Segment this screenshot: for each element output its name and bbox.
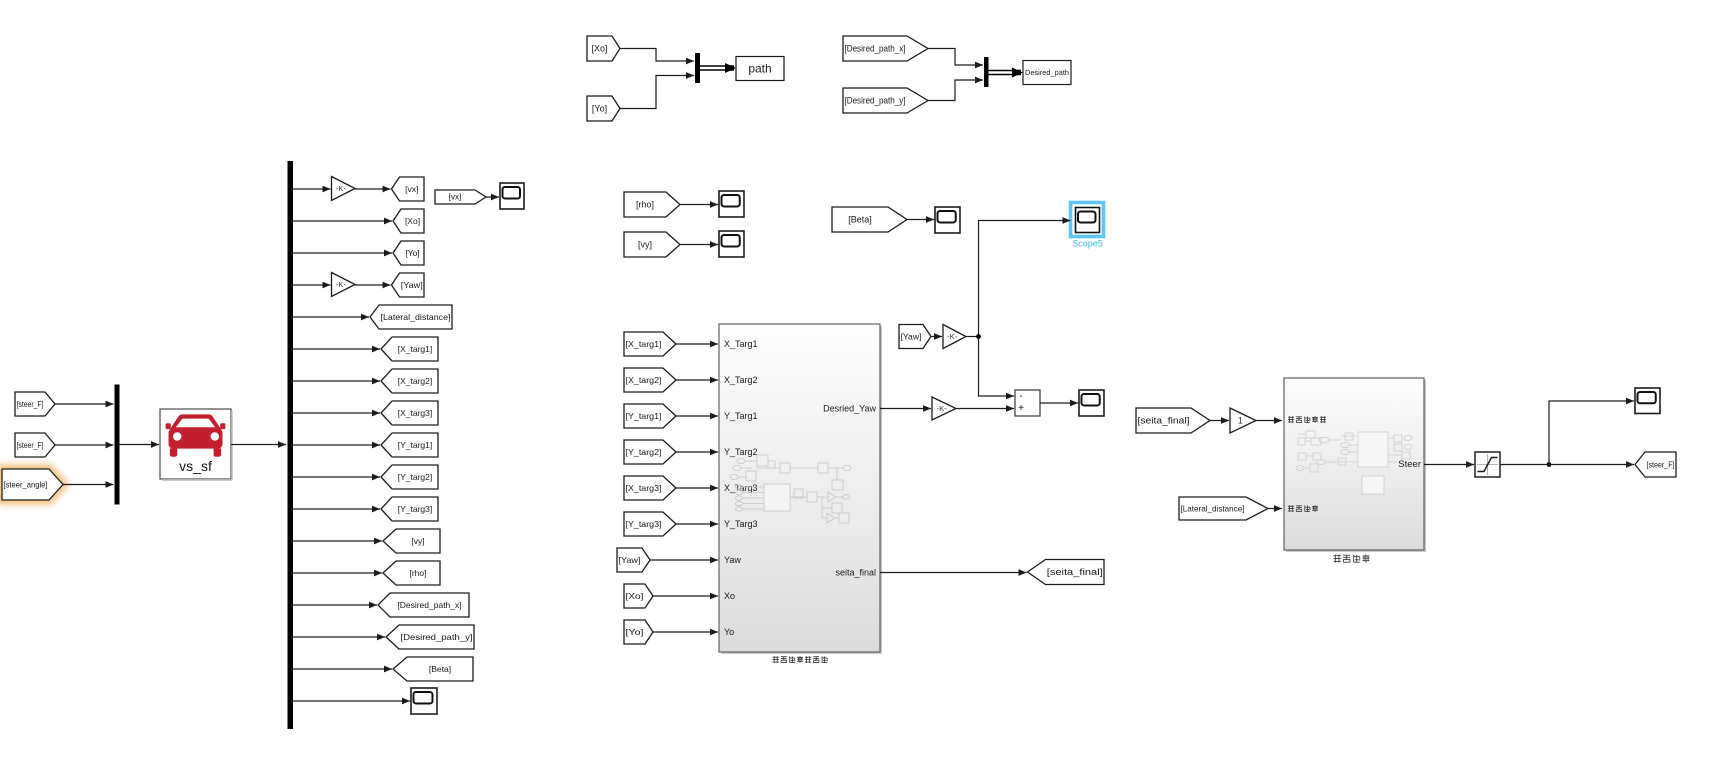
svg-text:[rho]: [rho] [636, 200, 654, 210]
from tag [Yo] into subsystem A [624, 620, 653, 644]
from tag [rho] [624, 192, 680, 217]
wire [vx] to scope S2 [486, 194, 499, 201]
junction node dot [976, 334, 981, 339]
svg-text:Yo: Yo [724, 627, 734, 637]
gain G1 -K- [332, 177, 356, 201]
from tag [Desired_path_x] [843, 36, 928, 61]
svg-text:[Xo]: [Xo] [405, 216, 420, 226]
scope S3 [719, 191, 744, 217]
svg-text:[Xo]: [Xo] [591, 44, 607, 54]
svg-text:[Y_targ1]: [Y_targ1] [626, 411, 662, 421]
from tag [vy] [624, 232, 680, 257]
svg-text:[Yaw]: [Yaw] [401, 280, 423, 290]
wire [Xo] to subsystem A port 8 [653, 593, 718, 600]
mux Mux1 [695, 53, 700, 83]
goto tag [Yo] [393, 241, 424, 265]
svg-text:Desried_Yaw: Desried_Yaw [823, 404, 876, 414]
svg-text:[X_targ1]: [X_targ1] [626, 339, 662, 349]
svg-text:[Yo]: [Yo] [592, 104, 607, 114]
svg-text:[Yo]: [Yo] [405, 248, 419, 258]
subsystem B input port label 偏航角误差 [1288, 416, 1326, 422]
goto tag [Xo] [393, 209, 424, 233]
svg-text:[rho]: [rho] [409, 568, 426, 578]
wire [rho] to scope S3 [680, 201, 718, 208]
gain G5 value 1 [1230, 408, 1256, 433]
mux Mux2 [984, 57, 989, 87]
mux Mux3 [115, 385, 120, 505]
svg-text:[vy]: [vy] [638, 240, 652, 250]
from tag [Xo] into subsystem A [624, 584, 653, 608]
svg-text:-K-: -K- [336, 184, 347, 193]
wire demux out15 to goto [Desired_path_y] [293, 634, 385, 641]
wire [Beta] to scope S5 [907, 216, 934, 223]
svg-text:[vx]: [vx] [449, 193, 461, 202]
wire saturation to goto [steer_F] [1500, 461, 1634, 468]
from tag [seita_final] [1136, 408, 1210, 433]
from tag [Y_targ1] into subsystem A [624, 404, 676, 428]
scope S4 [719, 231, 744, 257]
wire demux out13 to goto [rho] [293, 570, 382, 577]
wire demux out10 to goto [Y_targ2] [293, 474, 380, 481]
svg-text:[seita_final]: [seita_final] [1138, 416, 1190, 426]
subsystem B label 控制算法 [1333, 555, 1369, 563]
wire [Y_targ1] to subsystem A port 3 [676, 413, 718, 420]
from tag [Xo] [587, 36, 620, 61]
wire [Desired_path_y] to Mux2 [928, 77, 983, 101]
svg-text:[seita_final]: [seita_final] [1047, 567, 1103, 577]
svg-text:[X_targ3]: [X_targ3] [398, 408, 433, 418]
wire Desried_Yaw to gain G4 [880, 405, 931, 412]
svg-text:[Desired_path_x]: [Desired_path_x] [397, 600, 461, 610]
wire [steer_F] upper to Mux3 [55, 401, 114, 408]
wire [Lateral_distance] to subsystem B [1268, 505, 1282, 512]
gain G3 -K- [943, 325, 966, 349]
goto tag [Desired_path_y] [386, 625, 474, 649]
svg-text:[steer_F]: [steer_F] [17, 440, 44, 450]
goto tag [steer_F] [1635, 452, 1676, 477]
svg-text:[Desired_path_x]: [Desired_path_x] [845, 44, 906, 54]
goto tag [Y_targ1] [381, 433, 438, 457]
from tag [X_targ3] into subsystem A [624, 476, 676, 500]
wire demux out4 to gain G2 [293, 282, 331, 289]
wire [Xo] to Mux1 [620, 49, 694, 65]
wire Steer to saturation [1424, 461, 1474, 468]
svg-text:X_Targ1: X_Targ1 [724, 339, 758, 349]
svg-text:[Yaw]: [Yaw] [619, 555, 641, 565]
svg-text:[steer_angle]: [steer_angle] [4, 480, 48, 490]
goto tag [Y_targ2] [381, 465, 438, 489]
subsystem vs_sf (vehicle model) [160, 409, 232, 480]
goto tag [Y_targ3] [381, 497, 438, 521]
svg-text:[steer_F]: [steer_F] [1647, 460, 1675, 470]
wire demux out8 to goto [X_targ3] [293, 410, 380, 417]
wire demux out6 to goto [X_targ1] [293, 346, 380, 353]
display path [736, 57, 784, 81]
svg-text:[Lateral_distance]: [Lateral_distance] [381, 312, 451, 322]
vector wire Mux1 to path display [700, 63, 736, 73]
from tag [Yaw] mid [899, 325, 931, 349]
wire demux out9 to goto [Y_targ1] [293, 442, 380, 449]
svg-text:[X_targ1]: [X_targ1] [398, 344, 433, 354]
svg-text:Yaw: Yaw [724, 555, 741, 565]
svg-text:[Yaw]: [Yaw] [901, 332, 922, 342]
subsystem 期望航向角计算 (desired heading angle calculation) [719, 324, 882, 654]
wire demux out5 to goto [Lateral_distance] [293, 314, 369, 321]
svg-text:[vy]: [vy] [411, 536, 424, 546]
wire demux out3 to goto [Yo] [293, 250, 392, 257]
goto tag [vx] [392, 177, 425, 201]
svg-text:[Desired_path_y]: [Desired_path_y] [401, 632, 473, 642]
wire [Yo] to subsystem A port 9 [653, 629, 718, 636]
svg-text:[X_targ3]: [X_targ3] [626, 483, 662, 493]
svg-text:[Y_targ2]: [Y_targ2] [626, 447, 662, 457]
from tag [Y_targ2] into subsystem A [624, 440, 676, 464]
goto tag [vy] [383, 529, 440, 553]
svg-text:[Y_targ2]: [Y_targ2] [398, 472, 433, 482]
svg-text:Scope5: Scope5 [1072, 239, 1103, 249]
goto tag [Beta] [393, 657, 473, 681]
wire [Desired_path_x] to Mux2 [928, 49, 983, 69]
wire [Yaw] to gain G3 [931, 333, 942, 340]
goto tag [Desired_path_x] [378, 593, 469, 617]
vector wire Mux2 to Desired_path display [989, 68, 1024, 78]
goto tag [rho] [383, 561, 440, 585]
svg-text:[Y_targ1]: [Y_targ1] [398, 440, 433, 450]
from tag [steer_F] upper [15, 392, 55, 416]
svg-text:[X_targ2]: [X_targ2] [626, 375, 662, 385]
svg-text:[Beta]: [Beta] [848, 215, 872, 225]
svg-text:+: + [1018, 403, 1024, 414]
wire [Y_targ2] to subsystem A port 4 [676, 449, 718, 456]
goto tag [X_targ3] [381, 401, 438, 425]
from tag [Beta] [832, 207, 907, 232]
wire demux out11 to goto [Y_targ3] [293, 506, 380, 513]
svg-text:path: path [748, 62, 771, 76]
scope Scope5 (selected, blue highlight) [1071, 203, 1104, 249]
junction node dot on steer wire [1547, 462, 1552, 467]
wire gain G4 to sum plus input [956, 405, 1014, 412]
scope S6 [1079, 390, 1104, 416]
from tag [X_targ1] into subsystem A [624, 332, 676, 356]
from tag [Y_targ3] into subsystem A [624, 512, 676, 536]
goto tag [seita_final] [1028, 560, 1105, 585]
subsystem B content preview (faint) [1296, 431, 1412, 494]
from tag [Yo] [587, 96, 620, 121]
wire Mux3 to vs_sf [120, 441, 160, 448]
svg-text:-K-: -K- [937, 404, 948, 413]
subsystem A label 期望航向角计算 [773, 656, 828, 663]
svg-text:Desired_path: Desired_path [1025, 68, 1069, 77]
svg-text:seita_final: seita_final [835, 568, 876, 578]
scope S2 [500, 183, 524, 209]
from tag [Desired_path_y] [843, 88, 928, 113]
svg-text:Y_Targ3: Y_Targ3 [724, 519, 758, 529]
scope S5 [935, 207, 960, 233]
svg-text:[Beta]: [Beta] [429, 664, 451, 674]
wire [vy] to scope S4 [680, 241, 718, 248]
goto tag [X_targ1] [381, 337, 438, 361]
svg-text:[X_targ2]: [X_targ2] [398, 376, 433, 386]
subsystem B input port label 横向偏差 [1288, 505, 1318, 511]
svg-text:Steer: Steer [1398, 459, 1421, 470]
svg-text:[Desired_path_y]: [Desired_path_y] [845, 96, 906, 106]
goto tag [X_targ2] [381, 369, 438, 393]
wire [Yo] to Mux1 [620, 72, 694, 108]
sum block (minus plus) [1015, 390, 1040, 416]
from tag [Lateral_distance] [1179, 497, 1268, 520]
scope S1 [411, 688, 437, 714]
svg-text:[Y_targ3]: [Y_targ3] [398, 504, 433, 514]
svg-text:[Lateral_distance]: [Lateral_distance] [1181, 504, 1245, 514]
subsystem 控制算法 (control algorithm) [1284, 378, 1426, 552]
goto tag [Yaw] [392, 273, 425, 297]
svg-text:-: - [1019, 391, 1022, 402]
wire demux out1 to gain G1 [293, 186, 331, 193]
wire [Y_targ3] to subsystem A port 6 [676, 521, 718, 528]
from tag [Yaw] into subsystem A [617, 548, 650, 572]
wire [steer_F] lower to Mux3 [55, 442, 114, 449]
svg-text:X_Targ3: X_Targ3 [724, 483, 758, 493]
subsystem A content preview (faint) [730, 455, 851, 523]
from tag [steer_F] lower [15, 433, 55, 457]
gain G4 -K- [932, 397, 956, 420]
wire gain G3 to junction [966, 336, 979, 338]
wire demux out7 to goto [X_targ2] [293, 378, 380, 385]
wire [X_targ1] to subsystem A port 1 [676, 341, 718, 348]
svg-text:Xo: Xo [724, 591, 735, 601]
svg-text:[steer_F]: [steer_F] [17, 399, 44, 409]
scope S7 [1635, 388, 1660, 414]
svg-text:X_Targ2: X_Targ2 [724, 375, 758, 385]
wire seita_final to goto [seita_final] [880, 569, 1027, 576]
svg-text:[vx]: [vx] [405, 184, 418, 194]
wire vs_sf to Demux [231, 441, 286, 448]
wire [seita_final] to gain G5 [1210, 417, 1229, 424]
wire junction to sum minus input [979, 337, 1015, 400]
wire [steer_angle] to Mux3 [63, 481, 114, 488]
wire gain G5 to subsystem B [1256, 417, 1282, 424]
wire demux out16 to goto [Beta] [293, 666, 392, 673]
svg-text:-K-: -K- [336, 280, 347, 289]
demux bar [288, 161, 294, 729]
wire demux out2 to goto [Xo] [293, 218, 392, 225]
wire demux out12 to goto [vy] [293, 538, 382, 545]
display Desired_path [1023, 61, 1071, 85]
wire gain G2 to goto [Yaw] [355, 282, 391, 289]
wire gain G1 to goto [vx] [355, 186, 391, 193]
svg-text:Y_Targ1: Y_Targ1 [724, 411, 758, 421]
svg-text:[Yo]: [Yo] [626, 627, 644, 637]
gain G2 -K- [332, 273, 356, 297]
wire demux out17 to scope S1 [293, 698, 410, 705]
from tag [X_targ2] into subsystem A [624, 368, 676, 392]
svg-text:[Xo]: [Xo] [626, 591, 644, 601]
wire junction to Scope5 [979, 217, 1071, 336]
svg-text:vs_sf: vs_sf [179, 458, 212, 474]
svg-text:-K-: -K- [947, 332, 958, 341]
svg-text:Y_Targ2: Y_Targ2 [724, 447, 758, 457]
wire branch junction up to scope S7 [1549, 398, 1634, 465]
wire [X_targ2] to subsystem A port 2 [676, 377, 718, 384]
svg-text:1: 1 [1238, 416, 1243, 426]
from tag [steer_angle] highlighted [2, 469, 63, 500]
wire [X_targ3] to subsystem A port 5 [676, 485, 718, 492]
from tag [vx] [435, 190, 486, 204]
wire [Yaw] to subsystem A port 7 [650, 557, 718, 564]
wire sum to scope S6 [1040, 400, 1078, 407]
wire demux out14 to goto [Desired_path_x] [293, 602, 377, 609]
goto tag [Lateral_distance] [370, 305, 452, 329]
svg-text:[Y_targ3]: [Y_targ3] [626, 519, 662, 529]
saturation block [1475, 452, 1500, 477]
